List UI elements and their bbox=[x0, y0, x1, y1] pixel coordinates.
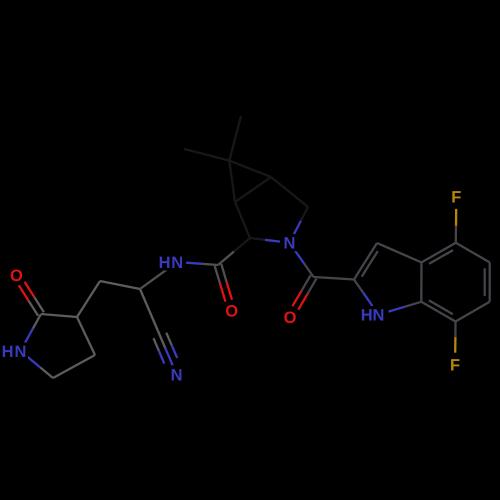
indole C3-C3a bond bbox=[377, 243, 422, 262]
indole HN label bbox=[359, 306, 386, 324]
amide C=O double bond bbox=[215, 264, 232, 302]
svg-text:F: F bbox=[450, 356, 460, 374]
indole C7a-C3a bond bbox=[420, 262, 423, 301]
indole C2=C3 double bond bbox=[354, 243, 378, 280]
nitrile N label bbox=[169, 366, 184, 384]
proline N-C4 bond bbox=[294, 207, 308, 234]
bond C7 to fluorine F2 bbox=[454, 322, 457, 353]
bond proline N to indole carbonyl C bbox=[295, 251, 314, 277]
svg-text:N: N bbox=[15, 343, 27, 361]
proline N label bbox=[282, 234, 297, 252]
svg-text:N: N bbox=[171, 366, 183, 384]
indole C3a=C4 aromatic bond bbox=[422, 243, 456, 264]
bicycloproline C5-C4 bond bbox=[271, 177, 308, 207]
fluorine F top label bbox=[449, 188, 464, 206]
svg-text:F: F bbox=[451, 189, 461, 207]
bond CH to amide NH bbox=[140, 267, 170, 289]
indole carbonyl O label bbox=[283, 309, 298, 327]
svg-text:H: H bbox=[361, 307, 373, 325]
lactam N1-C2 bond bbox=[25, 314, 41, 343]
svg-text:O: O bbox=[284, 309, 297, 327]
indole C7a-N1 bond bbox=[389, 302, 422, 312]
cyclopropane C1-C6 bond bbox=[229, 161, 235, 202]
svg-text:O: O bbox=[10, 267, 23, 285]
lactam C4-C5 bond bbox=[53, 355, 95, 378]
bond lactam C3 to linker CH2 bbox=[77, 281, 100, 317]
bicycloproline C1-C5 bond bbox=[235, 177, 271, 202]
indole carbonyl C=O double bond bbox=[292, 275, 316, 309]
indole C4-C5 bond bbox=[456, 243, 490, 263]
proline N-C2 bond bbox=[250, 238, 280, 242]
methyl group 1 on C6 bbox=[229, 116, 241, 161]
amide N-C bond bbox=[186, 263, 218, 265]
bond amide C to proline C2 bbox=[218, 238, 250, 265]
bond carbonyl C to indole C2 bbox=[314, 277, 355, 280]
svg-text:N: N bbox=[284, 235, 296, 253]
fluorine F bottom label bbox=[448, 356, 463, 374]
oxygen O of lactam bbox=[9, 267, 24, 285]
svg-text:N: N bbox=[171, 254, 183, 272]
indole C5=C6 aromatic bond bbox=[485, 262, 490, 301]
amide HN label bbox=[157, 254, 185, 272]
methyl group 2 on C6 bbox=[184, 149, 229, 161]
bicycloproline C2-C1 bond bbox=[235, 202, 250, 238]
svg-text:N: N bbox=[372, 307, 384, 325]
lactam N1-C5 bond bbox=[27, 357, 53, 378]
bond CH to nitrile carbon bbox=[140, 289, 158, 331]
svg-text:O: O bbox=[225, 303, 238, 321]
lactam HN label bbox=[0, 343, 28, 361]
bond CH2 to stereocenter CH bbox=[100, 281, 140, 289]
lactam C2-C3 bond bbox=[41, 314, 77, 317]
indole C6-C7 bond bbox=[456, 302, 490, 322]
bond C4 to fluorine F1 bbox=[455, 209, 458, 243]
lactam C3-C4 bond bbox=[77, 317, 95, 355]
indole C7=C7a aromatic bond bbox=[421, 300, 455, 321]
svg-text:H: H bbox=[2, 343, 14, 361]
nitrile C#N triple bond bbox=[154, 331, 178, 365]
cyclopropane C5-C6 bond bbox=[229, 161, 271, 177]
svg-text:H: H bbox=[159, 254, 171, 272]
indole N1-C2 bond bbox=[354, 280, 372, 307]
amide O label bbox=[224, 302, 239, 320]
lactam C2=O double bond bbox=[19, 282, 44, 316]
